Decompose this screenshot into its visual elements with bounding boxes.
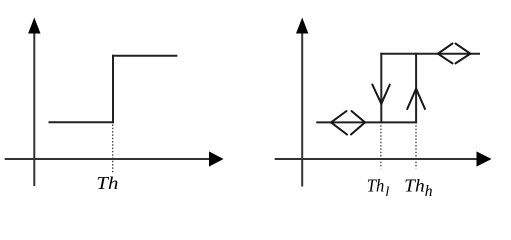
svg-text:Th: Th [367, 175, 385, 195]
svg-text:Th: Th [96, 173, 118, 193]
svg-text:l: l [385, 185, 389, 196]
svg-text:h: h [425, 183, 433, 196]
svg-text:Th: Th [404, 175, 425, 195]
